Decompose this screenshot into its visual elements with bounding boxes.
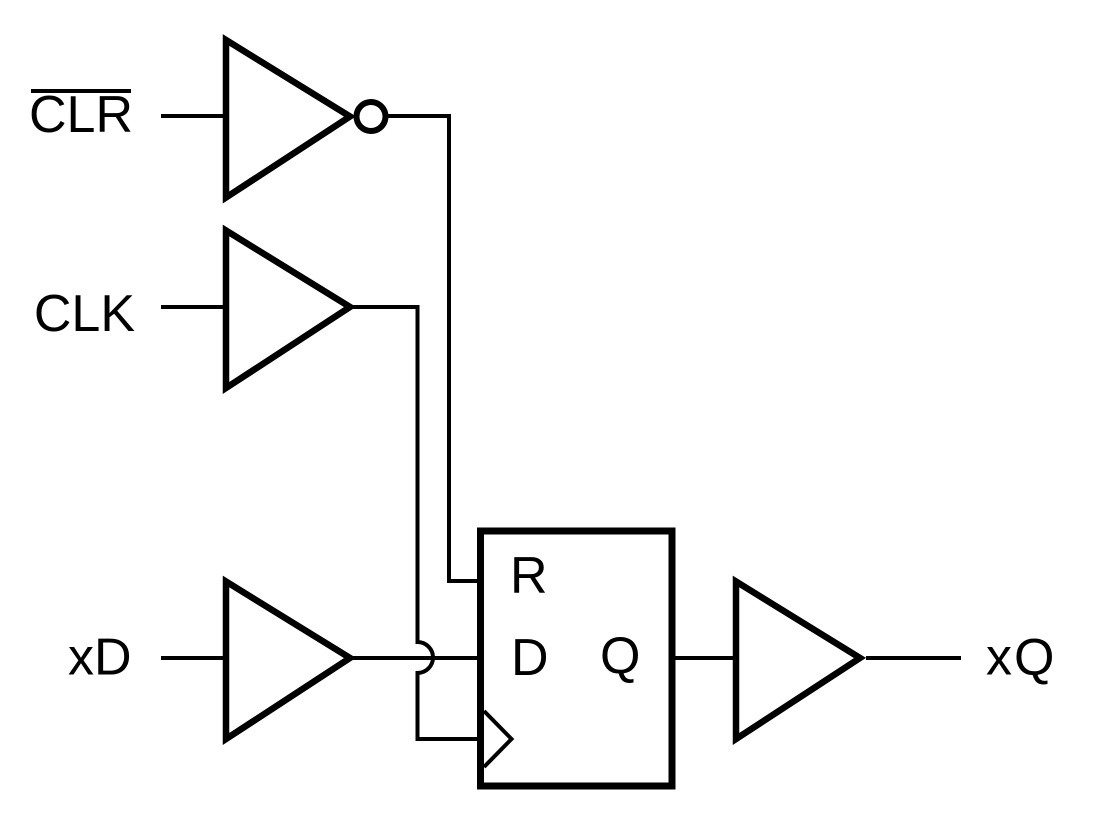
svg-text:xD: xD [68, 629, 132, 687]
wire U2 output to clock pin, with hop over xD wire [352, 307, 481, 739]
wire U1 output to R input of flip-flop [388, 116, 481, 581]
svg-text:CLR: CLR [29, 86, 133, 144]
wire Q output to buffer U5 [672, 656, 739, 660]
inverter U1 (CLR input inverter) [226, 40, 350, 198]
wire U5 output [866, 656, 961, 660]
clock edge symbol on U4 [484, 711, 512, 767]
svg-text:CLK: CLK [34, 285, 135, 343]
svg-text:D: D [511, 629, 549, 687]
buffer U5 (xQ output buffer) [736, 582, 860, 740]
buffer U2 (CLK input buffer) [226, 231, 350, 389]
inversion bubble on U1 output [357, 102, 386, 131]
wire U3 output to D input [352, 656, 481, 660]
wire xD input [161, 656, 229, 660]
buffer U3 (xD input buffer) [226, 582, 350, 740]
overline on CLR [31, 89, 131, 93]
wire CLR input [161, 114, 229, 118]
D flip-flop U4 body [481, 531, 673, 786]
svg-text:Q: Q [600, 627, 640, 685]
svg-text:xQ: xQ [986, 629, 1056, 687]
wire CLK input [161, 305, 229, 309]
svg-text:R: R [510, 547, 548, 605]
